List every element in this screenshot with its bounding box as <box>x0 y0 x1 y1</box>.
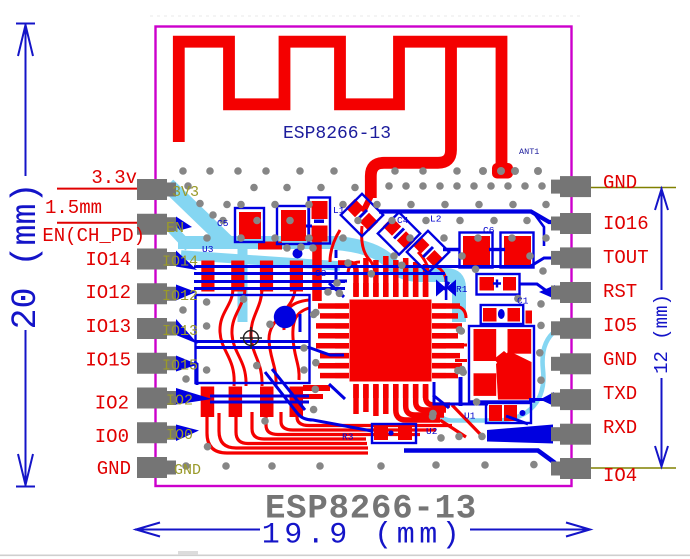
wire feed taper to L-network <box>363 196 371 212</box>
capacitor C1 outline <box>481 305 524 324</box>
wire EN stub <box>172 229 189 247</box>
crosshair reference mark <box>240 327 262 349</box>
red fan of traces bottom-left <box>207 405 482 453</box>
capacitor C5 outline <box>235 208 264 242</box>
wire 3V3 feed diagonal <box>168 185 227 242</box>
ESP8266 QFN chip U5 center pad <box>350 300 432 382</box>
antenna feed trace <box>371 47 451 198</box>
svg-text:IO15: IO15 <box>162 358 198 375</box>
wire main 3V3 band <box>178 236 340 249</box>
wire mid trace <box>194 272 445 275</box>
diode/diamond network pads (C4,L2 chain) <box>346 199 443 267</box>
C2 plus mark <box>493 280 501 288</box>
svg-text:RST: RST <box>603 281 637 303</box>
U3 big blue via dot <box>274 306 296 328</box>
component outlines (blue) <box>196 194 535 443</box>
svg-text:19.9 (mm): 19.9 (mm) <box>262 519 465 553</box>
svg-text:IO2: IO2 <box>166 393 193 410</box>
via blue dot below C5 <box>293 249 303 259</box>
svg-text:IO13: IO13 <box>85 316 131 338</box>
dimension red lines pin1/pin2 <box>57 188 140 190</box>
capacitor C1 pads <box>483 308 497 322</box>
svg-text:R3: R3 <box>342 432 354 443</box>
svg-text:IO16: IO16 <box>603 213 649 235</box>
crystal U4 outline <box>469 326 534 402</box>
L1 middle dash <box>314 220 324 224</box>
svg-text:EN: EN <box>166 220 184 237</box>
svg-text:ESP8266-13: ESP8266-13 <box>283 124 391 144</box>
wire IO2 pair <box>210 395 309 398</box>
U3 top pad row <box>201 261 303 292</box>
RXD thick trace <box>487 425 553 444</box>
svg-text:EN(CH_PD): EN(CH_PD) <box>42 225 145 247</box>
pin pads left <box>137 179 176 478</box>
svg-text:C3: C3 <box>315 268 327 279</box>
blue wedges at left pads <box>176 251 555 442</box>
svg-text:TXD: TXD <box>603 383 637 405</box>
wire C6 branch <box>533 212 544 246</box>
svg-text:U1: U1 <box>464 411 476 422</box>
R3 pads <box>374 427 388 440</box>
svg-text:IO13: IO13 <box>162 323 198 340</box>
svg-text:IO14: IO14 <box>162 254 198 271</box>
svg-text:1.5mm: 1.5mm <box>45 197 102 219</box>
svg-text:L2: L2 <box>430 214 442 225</box>
ANT1 pad <box>492 163 513 179</box>
faint top artifact <box>150 15 580 17</box>
resistor R3 outline <box>372 424 416 443</box>
wire diagonals over U3 bottom pads to R3 <box>265 372 372 431</box>
capacitor C5 pads <box>239 212 261 239</box>
svg-text:IO0: IO0 <box>166 427 193 444</box>
IC U3 courtyard <box>196 295 310 383</box>
wire blue corner stub right of U3 <box>336 250 347 281</box>
svg-text:3.3v: 3.3v <box>91 167 137 189</box>
wire RST trace <box>519 284 555 292</box>
wire EN blue wedge (under cyan) <box>176 217 192 232</box>
svg-text:TOUT: TOUT <box>603 247 649 269</box>
svg-text:12 (mm): 12 (mm) <box>651 294 673 374</box>
bottom window edge <box>0 555 690 557</box>
antenna ANT meander <box>179 42 502 165</box>
svg-text:IO0: IO0 <box>95 426 129 448</box>
svg-text:IO5: IO5 <box>603 315 637 337</box>
svg-text:U3: U3 <box>202 244 214 255</box>
svg-text:R1: R1 <box>456 284 468 295</box>
U1 blue dot <box>520 410 526 416</box>
wire IO5 cyan arc <box>437 331 556 421</box>
QFN pads + fanout <box>316 256 464 420</box>
pin labels right <box>603 172 649 487</box>
wire TOUT long trace <box>194 258 556 267</box>
dim 20mm vertical line <box>25 24 27 177</box>
capacitor C6 pads <box>463 236 490 265</box>
U3 bottom pad row <box>201 387 303 418</box>
svg-text:IO14: IO14 <box>85 249 131 271</box>
diode R1 bowtie <box>436 276 456 300</box>
svg-text:U2: U2 <box>426 426 438 437</box>
capacitor C2 pads <box>480 277 495 291</box>
R3 blue dot <box>388 430 393 435</box>
wire IO13 pair <box>196 340 309 343</box>
wire U3 cyan stub <box>238 248 248 322</box>
pin labels left <box>42 167 145 480</box>
wire second cyan band under U3 pads <box>181 255 340 266</box>
wire IO4 long bottom trace <box>404 451 555 464</box>
svg-text:IO15: IO15 <box>85 350 131 372</box>
dim 19.9mm horizontal <box>135 529 260 531</box>
blue wedges right pads <box>540 392 554 406</box>
wire C6 link <box>489 248 505 251</box>
wire L1 to C5 <box>306 225 312 228</box>
wire U1 left link <box>434 382 488 404</box>
svg-text:RXD: RXD <box>603 417 637 439</box>
svg-text:IO4: IO4 <box>603 465 637 487</box>
inductor L1 outline <box>309 198 331 244</box>
svg-text:C6: C6 <box>483 225 495 236</box>
svg-text:L1: L1 <box>333 205 345 216</box>
olive pin extension lines <box>591 187 676 189</box>
svg-text:GND: GND <box>174 462 201 479</box>
svg-text:20 (mm): 20 (mm) <box>6 182 46 329</box>
svg-text:IO2: IO2 <box>95 393 129 415</box>
pin pads right <box>551 176 591 479</box>
U1 pads <box>489 405 502 421</box>
C1 blue oval <box>498 309 505 319</box>
wire IO12 pair <box>194 280 345 283</box>
svg-text:C5: C5 <box>217 218 229 229</box>
board outline <box>156 27 572 487</box>
wire crystal left vertical <box>459 377 463 406</box>
wire IO16 top trace <box>379 212 556 223</box>
svg-text:IO12: IO12 <box>162 288 198 305</box>
dim 12mm vertical line <box>661 188 663 291</box>
inductor L1 pads <box>312 201 328 219</box>
IC U1 outline <box>486 403 531 423</box>
capacitor C2 outline <box>477 274 520 295</box>
crystal area red shapes <box>474 329 497 361</box>
red misc traces top-middle <box>258 226 467 361</box>
svg-text:C4: C4 <box>397 215 409 226</box>
diamond network outlines <box>341 194 383 236</box>
wire TXD trace <box>529 398 554 401</box>
wire QFN corner stubs <box>329 283 344 297</box>
svg-text:C1: C1 <box>517 296 529 307</box>
diamond slashes <box>357 210 433 257</box>
wire band bend right <box>335 243 459 322</box>
capacitor C6 outlines <box>460 233 493 268</box>
svg-text:ANT1: ANT1 <box>519 147 539 157</box>
svg-text:GND: GND <box>97 458 131 480</box>
svg-text:GND: GND <box>603 172 637 194</box>
svg-text:IO12: IO12 <box>85 282 131 304</box>
svg-text:GND: GND <box>603 349 637 371</box>
svg-text:3V3: 3V3 <box>172 184 199 201</box>
refdes labels <box>202 205 529 443</box>
wire IO15 vertical <box>194 362 197 385</box>
red S-curve traces inside U3 <box>220 288 309 386</box>
